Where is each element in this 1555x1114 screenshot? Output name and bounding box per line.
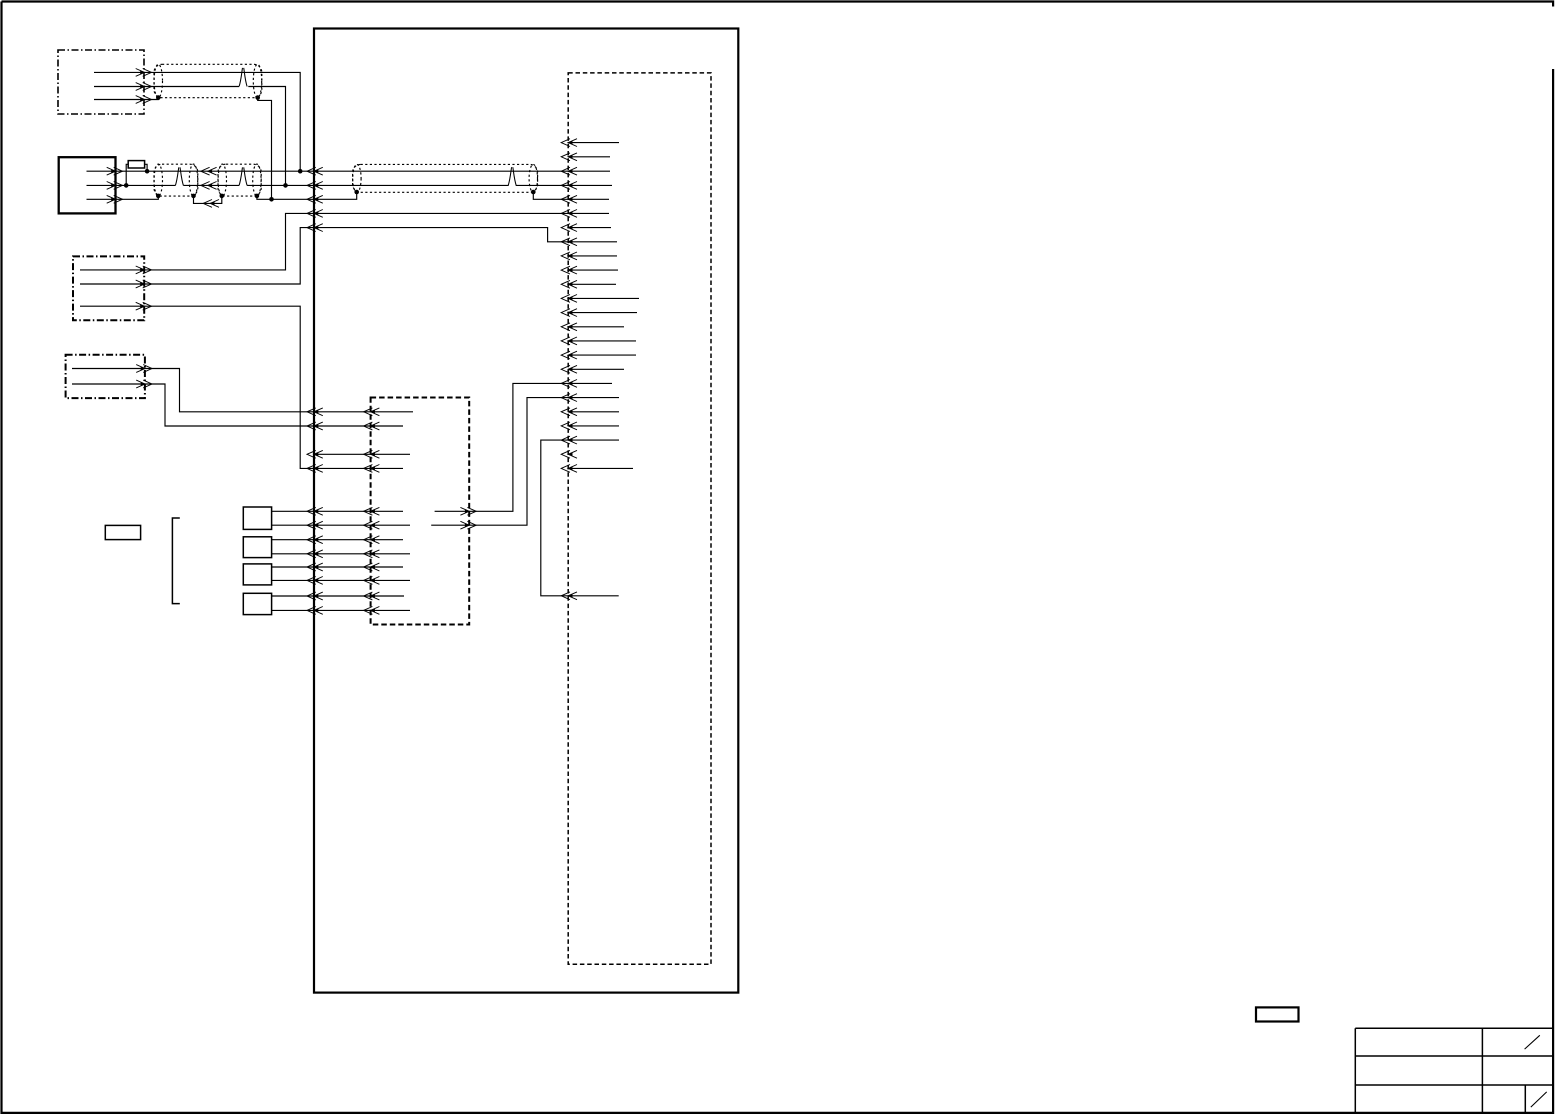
- shielded cable W1: [154, 64, 262, 97]
- arrowhead X1 pin 17: [561, 365, 577, 373]
- wire K1 out1 to X1 pin: [435, 383, 569, 511]
- title block slash marks: [1525, 1035, 1547, 1107]
- arrowhead K1 pin 4: [364, 465, 380, 473]
- X1 pin 3 stub: [568, 170, 610, 172]
- junction node R1/bus1: [145, 169, 150, 174]
- internal connector block X1 (dashed): [568, 73, 711, 964]
- arrowhead bus1 W2-W3: [201, 167, 217, 175]
- junction W1 shield right: [255, 95, 260, 100]
- arrowhead U1 boundary row 6: [307, 408, 323, 416]
- arrowhead K1 pin 6: [364, 521, 380, 529]
- arrowhead K1 pin 2: [364, 422, 380, 430]
- cable W1 shield drain right: [258, 98, 272, 200]
- device box A1 (dash-dot): [58, 50, 144, 114]
- X1 pin 12 stub: [568, 297, 639, 299]
- title block: [1355, 1028, 1553, 1113]
- arrowhead X1 pin 22: [561, 436, 577, 444]
- wire S1 contact 2 to K1: [272, 524, 371, 526]
- arrowhead U1 boundary row 3: [307, 195, 323, 203]
- junction node bus1/W1: [298, 169, 303, 174]
- cable W3 twisted pair: [239, 167, 247, 185]
- arrowhead K1 pin 3: [364, 450, 380, 458]
- K1 pin 3 stub: [371, 453, 410, 455]
- arrowhead X1 pin 4: [561, 182, 577, 190]
- X1 pin 17 stub: [568, 368, 624, 370]
- arrowhead X1 pin 23: [561, 450, 577, 458]
- junction W4 shield right: [531, 190, 536, 195]
- X1 pin 2 stub: [568, 156, 610, 158]
- junction W3 shield right: [255, 194, 260, 199]
- K1 pin 11 stub: [371, 595, 404, 597]
- arrowhead K1 out1: [460, 507, 476, 515]
- shield link W2-W3: [194, 196, 222, 203]
- X1 pin 10 stub: [568, 269, 618, 271]
- arrowhead A3 pin 2: [136, 380, 152, 388]
- wire A1 pin2 to bus (net N2), gap at twist: [94, 87, 286, 186]
- K1 pin 9 stub: [371, 566, 403, 568]
- termination resistor R1: [128, 161, 144, 168]
- X1 pin 9 stub: [568, 255, 617, 257]
- arrowhead A1 pin 1: [136, 69, 152, 77]
- arrowhead X1 pin 10: [561, 266, 577, 274]
- switch block S1: [243, 507, 271, 529]
- arrowhead X1 pin 8: [561, 238, 577, 246]
- K1 pin 2 stub: [371, 425, 403, 427]
- arrowhead K1 pin 1: [364, 408, 380, 416]
- wire S2 contact 2 to K1: [272, 553, 371, 555]
- X1 pin 1 stub: [568, 142, 619, 144]
- X1 pin 22 stub: [568, 439, 619, 441]
- X1 pin 5 stub: [568, 198, 609, 200]
- wire K1 out2 to X1 pin: [431, 398, 568, 526]
- arrowhead K1 pin 8: [364, 550, 380, 558]
- arrowhead U1 boundary row 14: [307, 563, 323, 571]
- junction W4 shield left: [354, 190, 359, 195]
- arrowhead U1 boundary row 12: [307, 536, 323, 544]
- arrowhead U1 boundary row 5: [307, 224, 323, 232]
- X1 pin 6 stub: [568, 212, 609, 214]
- junction W3 shield left: [220, 194, 225, 199]
- X1 pin 7 stub: [568, 227, 611, 229]
- X1 pin 18 stub: [568, 382, 612, 384]
- arrowhead A2 pin 1: [136, 266, 152, 274]
- jumper loop X1 pins: [541, 440, 568, 596]
- wire S1 contact 1 to K1: [272, 510, 371, 512]
- arrowhead U1 boundary row 17: [307, 607, 323, 615]
- arrowhead K1 pin 11: [364, 592, 380, 600]
- wire B1 pin2 CAN-L bus, gaps at twists: [87, 184, 569, 186]
- arrowhead U1 boundary row 1: [307, 167, 323, 175]
- wire A2 pin3 to K1 (net N9): [80, 306, 371, 468]
- arrowhead U1 boundary row 2: [307, 182, 323, 190]
- wire S4 contact 1 to K1: [272, 595, 371, 597]
- arrowhead B1 pin 1: [107, 167, 123, 175]
- wire A1 pin1 to bus (net N1): [94, 72, 300, 171]
- cable W4 twisted pair: [508, 167, 516, 185]
- X1 pin 8 stub: [568, 241, 617, 243]
- arrowhead U1 boundary row 4: [307, 210, 323, 218]
- arrowhead X1 pin 18: [561, 380, 577, 388]
- K1 pin 7 stub: [371, 539, 403, 541]
- arrowhead A1 pin 3: [136, 96, 152, 104]
- cable W2 twisted pair: [175, 167, 183, 185]
- junction node R1/bus2: [124, 183, 129, 188]
- K1 pin 4 stub: [371, 467, 403, 469]
- arrowhead X1 pin 24: [561, 465, 577, 473]
- revision rectangle: [1256, 1007, 1299, 1021]
- arrowhead X1 pin 21: [561, 422, 577, 430]
- junction node bus2/W1: [283, 183, 288, 188]
- X1 pin 21 stub: [568, 425, 619, 427]
- X1 pin 20 stub: [568, 411, 619, 413]
- cable W4 shield drain to pin: [533, 192, 568, 199]
- group bracket: [172, 518, 179, 604]
- K1 pin 12 stub: [371, 609, 410, 611]
- shielded cable W3: [218, 164, 261, 196]
- arrowhead K1 pin 7: [364, 536, 380, 544]
- K1 pin 5 stub: [371, 510, 403, 512]
- wire S4 contact 2 to K1: [272, 609, 371, 611]
- wire S3 contact 1 to K1: [272, 566, 371, 568]
- X1 pin 15 stub: [568, 340, 636, 342]
- X1 pin 13 stub: [568, 312, 637, 314]
- wire B1 pin3 to cable W2 shield: [87, 196, 159, 199]
- arrowhead B1 pin 2: [107, 182, 123, 190]
- wire A3 pin2 to K1: [72, 384, 371, 426]
- arrowhead X1 pin 16: [561, 351, 577, 359]
- arrowhead X1 pin 6: [561, 210, 577, 218]
- arrowhead U1 boundary row 9: [307, 465, 323, 473]
- X1 pin 19 stub: [568, 397, 619, 399]
- arrowhead K1 pin 5: [364, 507, 380, 515]
- arrowhead U1 boundary row 7: [307, 422, 323, 430]
- arrowhead K1 pin 9: [364, 563, 380, 571]
- arrowhead U1 boundary row 8: [307, 450, 323, 458]
- switch block S3: [243, 564, 271, 585]
- X1 pin 16 stub: [568, 354, 636, 356]
- K1 pin 1 stub: [371, 411, 413, 413]
- X1 pin 4 stub: [568, 184, 612, 186]
- arrowhead A3 pin 1: [136, 365, 152, 373]
- wire A3 pin1 to K1: [72, 369, 371, 412]
- junction W2 shield right: [191, 194, 196, 199]
- junction W1 shield left: [156, 95, 161, 100]
- shielded cable W2: [154, 164, 198, 196]
- wire A2 pin1 to X1 (net N6): [80, 213, 568, 270]
- arrowhead X1 pin 5: [561, 195, 577, 203]
- wire B1 pin1 CAN-H bus: [87, 170, 569, 172]
- shielded cable W4: [353, 164, 538, 192]
- X1 pin 24 stub: [568, 467, 633, 469]
- wire A1 pin3 to cable W1 shield: [94, 98, 158, 100]
- arrowhead X1 pin 3: [561, 167, 577, 175]
- switch block S4: [243, 593, 271, 614]
- arrowhead X1 pin 13: [561, 309, 577, 317]
- K1 pin 10 stub: [371, 579, 410, 581]
- arrowhead A2 pin 3: [136, 302, 152, 310]
- junction node shield/W1: [269, 197, 274, 202]
- legend rectangle: [105, 525, 140, 539]
- arrowhead U1 boundary row 11: [307, 521, 323, 529]
- arrowhead X1 pin 12: [561, 295, 577, 303]
- arrowhead X1 pin 20: [561, 408, 577, 416]
- arrowhead U1 boundary row 15: [307, 577, 323, 585]
- arrowhead bus2 W2-W3: [201, 182, 217, 190]
- K1 pin 8 stub: [371, 553, 410, 555]
- relay module box K1 (dashed): [371, 398, 470, 625]
- arrowhead K1 out2: [460, 521, 476, 529]
- arrowhead U1 boundary row 16: [307, 592, 323, 600]
- wire S2 contact 1 to K1: [272, 539, 371, 541]
- arrowhead X1 pin 15: [561, 337, 577, 345]
- arrowhead K1 pin 12: [364, 607, 380, 615]
- X1 pin 25 stub: [568, 595, 619, 597]
- junction W2 shield left: [156, 194, 161, 199]
- arrowhead X1 pin 19: [561, 394, 577, 402]
- X1 pin 14 stub: [568, 326, 624, 328]
- stub wire at ECU edge row: [314, 453, 371, 455]
- wire A2 pin2 to X1 (net N8): [80, 228, 568, 284]
- wire S3 contact 2 to K1: [272, 579, 371, 581]
- device box A3 (dash-dot): [66, 355, 145, 398]
- arrowhead A1 pin 2: [136, 83, 152, 91]
- X1 pin 11 stub: [568, 283, 616, 285]
- arrowhead X1 pin 1: [561, 139, 577, 147]
- arrowhead shield link: [203, 200, 219, 208]
- switch block S2: [243, 537, 271, 558]
- arrowhead K1 pin 10: [364, 577, 380, 585]
- cable W1 twisted pair: [239, 68, 247, 87]
- arrowhead A2 pin 2: [136, 280, 152, 288]
- arrowhead X1 pin 14: [561, 323, 577, 331]
- arrowhead X1 pin 2: [561, 153, 577, 161]
- K1 pin 6 stub: [371, 524, 410, 526]
- sensor box B1: [59, 157, 116, 213]
- ECU boundary box U1: [314, 29, 738, 993]
- arrowhead X1 pin 25: [561, 592, 577, 600]
- resistor R1 leads: [126, 164, 147, 185]
- arrowhead U1 boundary row 10: [307, 507, 323, 515]
- cable W3 shield drain to cable W4 shield: [257, 192, 357, 199]
- device box A2 (dash-dot): [73, 256, 144, 320]
- arrowhead U1 boundary row 13: [307, 550, 323, 558]
- arrowhead B1 pin 3: [107, 195, 123, 203]
- arrowhead X1 pin 11: [561, 280, 577, 288]
- arrowhead X1 pin 7: [561, 224, 577, 232]
- arrowhead X1 pin 9: [561, 252, 577, 260]
